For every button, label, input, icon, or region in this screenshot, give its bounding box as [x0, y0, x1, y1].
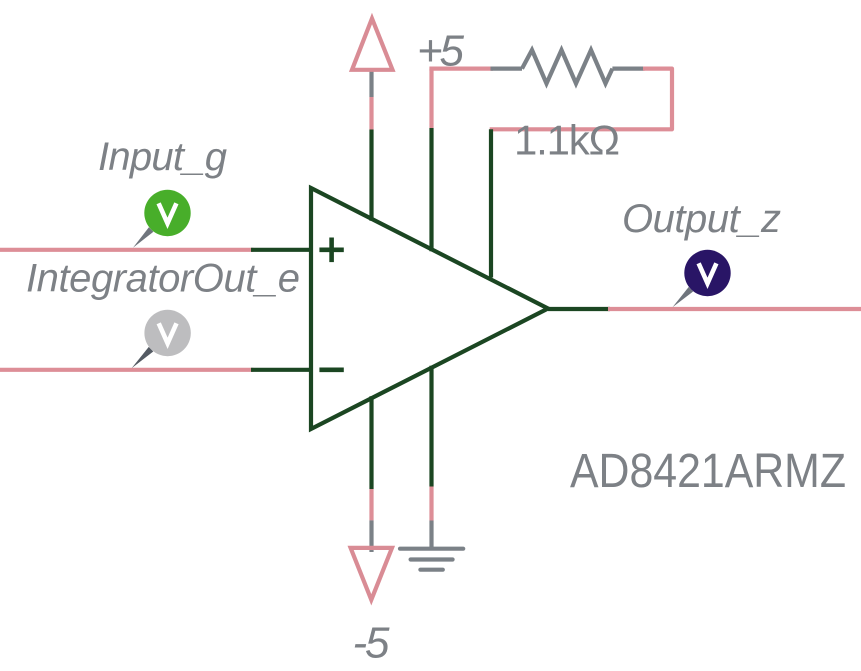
svg-text:+5: +5: [417, 26, 465, 75]
resistor R1 zigzag: [522, 50, 612, 84]
wire: non-inverting input net (pink): [0, 248, 254, 252]
wire pink segment below +V flag: [369, 97, 373, 130]
wire green vertical from triangle bottom edge to ground: [429, 366, 433, 487]
probe tail Input_g: [133, 227, 153, 248]
wire: op-amp - input pin stub (green): [251, 368, 311, 372]
wire: output net Output_z (pink): [608, 307, 861, 311]
wire green vertical from resistor bottom to triangle hypotenuse: [489, 129, 493, 277]
op-amp plus marking: [319, 238, 343, 263]
power flag -V stem (gray): [369, 520, 373, 552]
wire green vertical from +5 corner to triangle top edge: [429, 128, 433, 251]
wire green vertical from triangle bottom edge to -5 flag: [369, 396, 373, 489]
wire green vertical from +5 flag to triangle top edge: [369, 130, 373, 221]
probe tail IntegratorOut_e: [132, 347, 154, 368]
svg-text:Output_z: Output_z: [622, 197, 781, 241]
power flag up arrow (+5 rail): [352, 19, 393, 70]
op-amp U1 triangle AD8421ARMZ: [311, 188, 548, 429]
probe IntegratorOut_e circle (gray V): [144, 310, 190, 356]
wire: op-amp + input pin stub (green): [251, 248, 311, 252]
probe Output_z circle (navy V): [684, 250, 730, 296]
wire +5 horizontal pink: [429, 66, 493, 70]
svg-text:-5: -5: [353, 619, 391, 668]
svg-text:1.1kΩ: 1.1kΩ: [514, 117, 620, 164]
wire pink corner from +5: [429, 69, 433, 128]
power flag down arrow (-5 rail): [351, 548, 392, 600]
ground symbol: [400, 549, 463, 570]
wire: output pin stub (green): [548, 307, 610, 311]
op-amp minus marking: [319, 367, 343, 372]
wire: inverting input net (pink): [0, 368, 254, 372]
ground stem (gray): [429, 521, 433, 549]
wire pink loop right of resistor: [490, 69, 672, 130]
power flag +V stem (gray): [369, 69, 373, 98]
wire pink above ground: [429, 487, 433, 521]
svg-text:Input_g: Input_g: [98, 135, 227, 179]
wire pink segment above -V flag: [369, 489, 373, 520]
probe tail Output_z: [673, 287, 694, 307]
probe Input_g circle (green V): [144, 190, 190, 236]
svg-text:IntegratorOut_e: IntegratorOut_e: [26, 257, 300, 301]
resistor R1 1.1k leads (gray): [491, 66, 523, 70]
svg-text:AD8421ARMZ: AD8421ARMZ: [570, 445, 846, 498]
